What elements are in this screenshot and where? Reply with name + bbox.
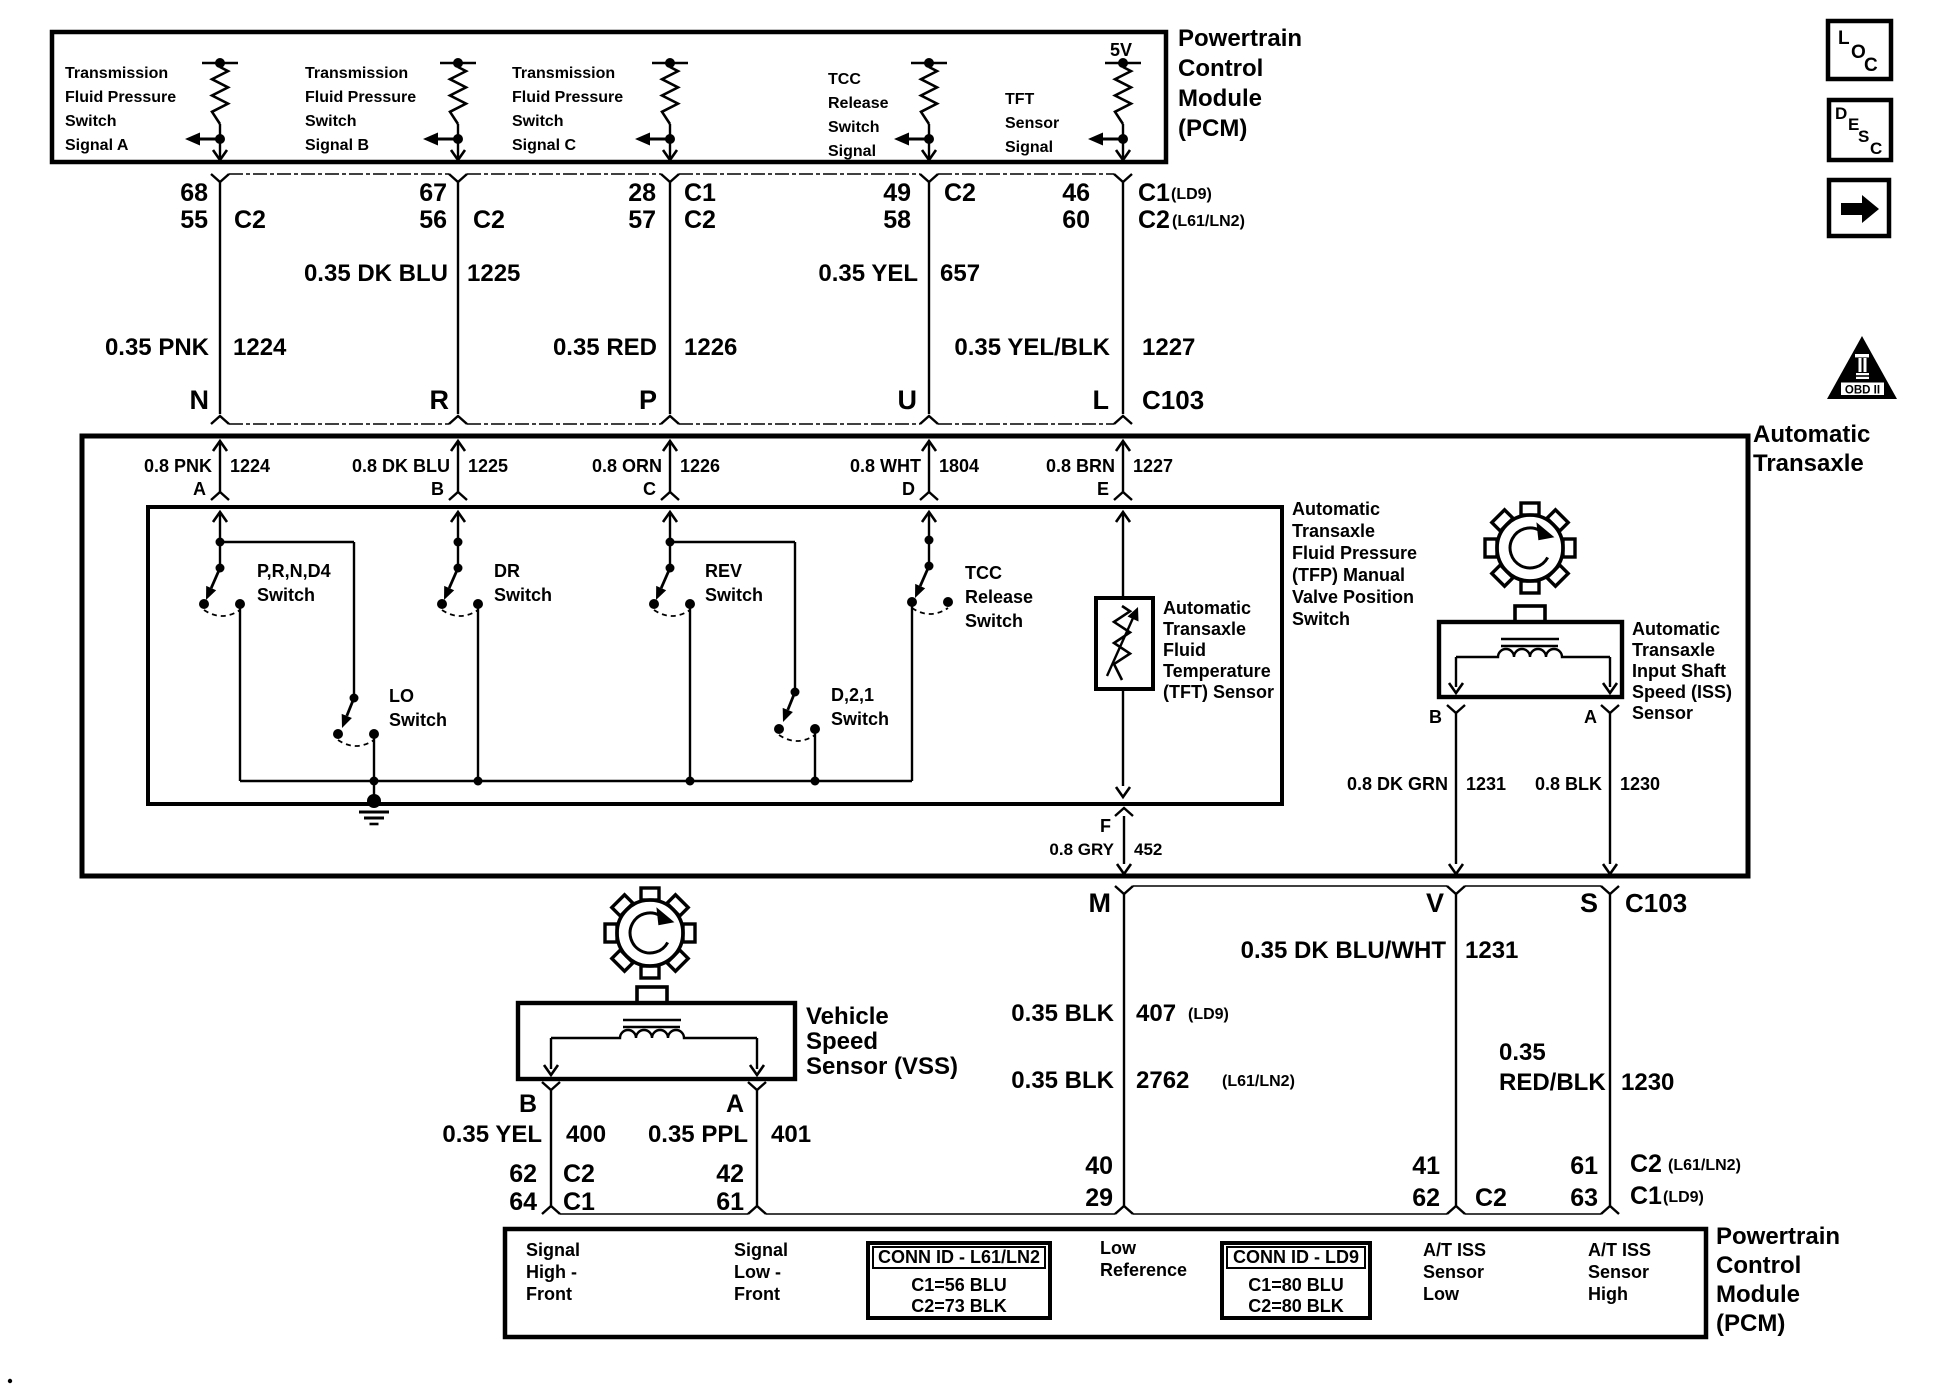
wire into transaxle, pin D: 0.8 WHT 1804 <box>850 441 979 500</box>
svg-text:0.35 DK BLU/WHT: 0.35 DK BLU/WHT <box>1241 937 1447 964</box>
svg-text:D: D <box>902 479 915 499</box>
label: Automatic Transaxle Fluid Pressure (TFP) Manual Valve Position Switch <box>1292 499 1417 629</box>
svg-text:61: 61 <box>1570 1152 1598 1180</box>
svg-text:Fluid Pressure: Fluid Pressure <box>512 89 623 106</box>
svg-text:Signal: Signal <box>1005 139 1053 156</box>
svg-text:Release: Release <box>828 95 889 112</box>
label: Automatic Transaxle Fluid Temperature (TFT) Sensor <box>1163 598 1274 702</box>
P,R,N,D4 switch <box>199 512 245 781</box>
svg-text:A/T ISS: A/T ISS <box>1588 1240 1651 1260</box>
wire label 0.35 RED/BLK 1230 <box>1499 1039 1674 1096</box>
svg-text:Switch: Switch <box>831 709 889 729</box>
svg-text:C1: C1 <box>1138 179 1170 207</box>
label: Vehicle Speed Sensor (VSS) <box>806 1003 958 1080</box>
svg-text:Temperature: Temperature <box>1163 661 1271 681</box>
ISS sensor gear icon <box>1485 503 1575 593</box>
svg-text:Reference: Reference <box>1100 1260 1187 1280</box>
label: TCC Release Switch <box>965 563 1033 631</box>
svg-text:Switch: Switch <box>389 710 447 730</box>
label: D,2,1 Switch <box>831 685 889 729</box>
svg-text:Fluid Pressure: Fluid Pressure <box>1292 543 1417 563</box>
PCM pin numbers 61 / 63 with C2 (L61/LN2) C1 (LD9) <box>1570 1150 1741 1212</box>
svg-text:0.35 DK BLU: 0.35 DK BLU <box>304 260 448 287</box>
svg-text:58: 58 <box>883 206 911 234</box>
DESC icon box <box>1829 100 1891 160</box>
connector pin F <box>1100 808 1133 836</box>
svg-text:Transmission: Transmission <box>512 65 615 82</box>
svg-text:N: N <box>190 385 210 415</box>
svg-text:Switch: Switch <box>65 113 117 130</box>
wire label 0.35 BLK 2762 (L61/LN2) <box>1011 1067 1295 1094</box>
svg-text:C103: C103 <box>1142 385 1204 415</box>
svg-text:0.8 DK GRN: 0.8 DK GRN <box>1347 774 1448 794</box>
wire label 0.8 GRY 452 <box>1049 816 1162 874</box>
label: Transmission Fluid Pressure Switch Signal A <box>65 65 176 154</box>
svg-text:Low: Low <box>1423 1284 1460 1304</box>
wire 0.8 BLK 1230 <box>1535 713 1660 874</box>
wire V (0.35 DK BLU/WHT 1231) <box>1447 886 1465 1214</box>
svg-text:OBD II: OBD II <box>1845 385 1880 397</box>
arrow entering TFP box col A <box>213 512 227 522</box>
wire label 0.35 BLK 407 (LD9) <box>1011 1000 1229 1027</box>
svg-text:42: 42 <box>716 1160 744 1188</box>
resistor pull-up network, PCM column 2 <box>423 58 476 160</box>
svg-text:57: 57 <box>628 206 656 234</box>
VSS gear icon <box>605 888 695 978</box>
svg-text:C1: C1 <box>1630 1182 1662 1210</box>
svg-text:(LD9): (LD9) <box>1188 1006 1229 1023</box>
svg-text:Front: Front <box>526 1284 572 1304</box>
svg-text:Switch: Switch <box>705 585 763 605</box>
svg-text:Sensor: Sensor <box>1423 1262 1484 1282</box>
svg-text:High: High <box>1588 1284 1628 1304</box>
svg-text:1225: 1225 <box>467 260 520 287</box>
svg-text:Powertrain: Powertrain <box>1716 1223 1840 1250</box>
arrow entering TFP box col C <box>663 512 677 522</box>
svg-text:C2: C2 <box>1630 1150 1662 1178</box>
resistor pull-up network, PCM column 1 <box>185 58 238 160</box>
svg-text:55: 55 <box>180 206 208 234</box>
resistor pull-up network, PCM column 3 <box>635 58 688 160</box>
svg-text:0.35 YEL/BLK: 0.35 YEL/BLK <box>954 334 1110 361</box>
svg-text:C2: C2 <box>563 1160 595 1188</box>
wire into transaxle, pin A: 0.8 PNK 1224 <box>144 441 270 500</box>
svg-text:0.8 DK BLU: 0.8 DK BLU <box>352 456 450 476</box>
svg-text:Sensor: Sensor <box>1005 115 1059 132</box>
svg-text:Switch: Switch <box>965 611 1023 631</box>
svg-text:P,R,N,D4: P,R,N,D4 <box>257 561 331 581</box>
svg-text:Signal: Signal <box>828 143 876 160</box>
svg-text:657: 657 <box>940 260 980 287</box>
svg-text:0.35 YEL: 0.35 YEL <box>818 260 918 287</box>
svg-text:Input Shaft: Input Shaft <box>1632 661 1726 681</box>
wire branch from C to D,2,1 switch <box>670 542 795 692</box>
svg-text:0.8 ORN: 0.8 ORN <box>592 456 662 476</box>
PCM pin numbers 40 / 29 <box>1085 1152 1113 1212</box>
wire label 0.35 RED 1226 <box>553 334 737 361</box>
svg-text:Transmission: Transmission <box>305 65 408 82</box>
wire into transaxle, pin B: 0.8 DK BLU 1225 <box>352 441 508 500</box>
svg-text:C1=80 BLU: C1=80 BLU <box>1248 1275 1344 1295</box>
LOC icon box <box>1828 21 1891 79</box>
svg-text:60: 60 <box>1062 206 1090 234</box>
svg-text:C2=80 BLK: C2=80 BLK <box>1248 1296 1344 1316</box>
wire L: PCM pin to C103 pin L <box>1114 174 1132 424</box>
svg-text:1227: 1227 <box>1142 334 1195 361</box>
svg-text:(L61/LN2): (L61/LN2) <box>1668 1157 1741 1174</box>
svg-text:Low: Low <box>1100 1238 1137 1258</box>
svg-text:CONN ID - L61/LN2: CONN ID - L61/LN2 <box>878 1247 1040 1267</box>
wire 0.35 YEL 400 <box>442 1090 606 1214</box>
svg-text:D: D <box>1835 104 1847 123</box>
svg-text:Switch: Switch <box>512 113 564 130</box>
wire into transaxle, pin C: 0.8 ORN 1226 <box>592 441 720 500</box>
svg-text:RED/BLK: RED/BLK <box>1499 1069 1606 1096</box>
svg-text:C2: C2 <box>684 206 716 234</box>
svg-text:TCC: TCC <box>965 563 1002 583</box>
svg-text:407: 407 <box>1136 1000 1176 1027</box>
svg-text:(LD9): (LD9) <box>1663 1189 1704 1206</box>
LO switch <box>333 694 379 782</box>
pin numbers row 2: 55 C2 / 56 C2 / 57 C2 / 58 / 60 C2 (L61/LN2) <box>180 206 1245 234</box>
wire label 0.35 YEL/BLK 1227 <box>954 334 1195 361</box>
svg-text:67: 67 <box>419 179 447 207</box>
A/T Input Shaft Speed (ISS) Sensor box <box>1439 606 1622 697</box>
svg-text:C2: C2 <box>944 179 976 207</box>
svg-text:Automatic: Automatic <box>1753 421 1870 448</box>
svg-text:Automatic: Automatic <box>1292 499 1380 519</box>
svg-text:Switch: Switch <box>1292 609 1350 629</box>
wire label 0.35 YEL 657 <box>818 260 980 287</box>
svg-text:C: C <box>1870 139 1882 158</box>
svg-text:Switch: Switch <box>305 113 357 130</box>
svg-text:Powertrain: Powertrain <box>1178 25 1302 52</box>
svg-text:1230: 1230 <box>1620 774 1660 794</box>
svg-text:V: V <box>1426 888 1444 918</box>
wire M (0.8 GRY 452) to PCM <box>1115 886 1133 1214</box>
connector C103 letter row: N R P U L C103 <box>190 385 1205 415</box>
svg-text:Signal B: Signal B <box>305 137 369 154</box>
label: Transmission Fluid Pressure Switch Signal C <box>512 65 623 154</box>
svg-text:C2=73 BLK: C2=73 BLK <box>911 1296 1007 1316</box>
svg-text:Sensor (VSS): Sensor (VSS) <box>806 1053 958 1080</box>
wire N: PCM pin to C103 pin N <box>211 174 229 424</box>
wire 0.35 PPL 401 <box>648 1090 811 1214</box>
svg-text:41: 41 <box>1412 1152 1440 1180</box>
wire P: PCM pin to C103 pin P <box>661 174 679 424</box>
svg-text:A: A <box>193 479 206 499</box>
svg-text:Switch: Switch <box>257 585 315 605</box>
svg-text:(PCM): (PCM) <box>1178 115 1247 142</box>
svg-text:P: P <box>639 385 657 415</box>
svg-text:62: 62 <box>1412 1184 1440 1212</box>
svg-text:S: S <box>1858 127 1869 146</box>
svg-text:1231: 1231 <box>1465 937 1518 964</box>
wire from TFT sensor to pin F <box>1116 689 1130 797</box>
svg-text:0.8 BLK: 0.8 BLK <box>1535 774 1602 794</box>
svg-text:40: 40 <box>1085 1152 1113 1180</box>
svg-text:(L61/LN2): (L61/LN2) <box>1172 213 1245 230</box>
wire E into TFT sensor <box>1122 512 1124 598</box>
svg-text:0.8 BRN: 0.8 BRN <box>1046 456 1115 476</box>
wire branch from A to LO switch <box>220 542 354 698</box>
Automatic Transaxle outer box <box>82 436 1748 876</box>
ISS pin B <box>1429 705 1465 727</box>
label: LO Switch <box>389 686 447 730</box>
svg-text:0.8 WHT: 0.8 WHT <box>850 456 921 476</box>
svg-text:(TFT) Sensor: (TFT) Sensor <box>1163 682 1274 702</box>
svg-text:C2: C2 <box>473 206 505 234</box>
svg-text:C1: C1 <box>563 1188 595 1216</box>
svg-text:Transaxle: Transaxle <box>1753 450 1864 477</box>
svg-text:0.35 RED: 0.35 RED <box>553 334 657 361</box>
label: TFT Sensor Signal <box>1005 91 1059 156</box>
Vehicle Speed Sensor (VSS) box <box>518 987 795 1079</box>
svg-text:Automatic: Automatic <box>1163 598 1251 618</box>
PCM lower connector bottom boundary line <box>560 1213 1601 1215</box>
arrow entering TFP box col D <box>922 512 936 522</box>
svg-text:L: L <box>1838 28 1850 49</box>
label: P,R,N,D4 Switch <box>257 561 331 605</box>
svg-text:Front: Front <box>734 1284 780 1304</box>
right-arrow icon box <box>1829 180 1889 236</box>
D,2,1 switch <box>774 688 820 782</box>
svg-text:Signal A: Signal A <box>65 137 129 154</box>
wire label 0.35 DK BLU/WHT 1231 <box>1241 937 1519 964</box>
svg-text:0.35 BLK: 0.35 BLK <box>1011 1000 1114 1027</box>
svg-text:452: 452 <box>1134 840 1162 859</box>
svg-text:2762: 2762 <box>1136 1067 1189 1094</box>
svg-text:D,2,1: D,2,1 <box>831 685 874 705</box>
label: DR Switch <box>494 561 552 605</box>
svg-text:Control: Control <box>1716 1252 1801 1279</box>
svg-text:Sensor: Sensor <box>1632 703 1693 723</box>
svg-text:C: C <box>643 479 656 499</box>
svg-text:E: E <box>1097 479 1109 499</box>
svg-text:B: B <box>1429 707 1442 727</box>
svg-text:0.35 BLK: 0.35 BLK <box>1011 1067 1114 1094</box>
svg-text:1225: 1225 <box>468 456 508 476</box>
wire label 0.35 PNK 1224 <box>105 334 287 361</box>
svg-text:M: M <box>1089 888 1112 918</box>
label: Automatic Transaxle Input Shaft Speed (ISS) Sensor <box>1632 619 1732 723</box>
label: A/T ISS Sensor High <box>1588 1240 1651 1304</box>
svg-text:DR: DR <box>494 561 520 581</box>
scan speck bottom left <box>8 1379 12 1383</box>
TFP manual valve position switch box <box>148 507 1282 804</box>
svg-text:62: 62 <box>509 1160 537 1188</box>
svg-text:CONN ID - LD9: CONN ID - LD9 <box>1233 1247 1359 1267</box>
PCM top box (Powertrain Control Module) <box>52 32 1166 162</box>
label: Powertrain Control Module (PCM) top right <box>1178 25 1302 142</box>
connector strip top boundary line <box>229 173 1114 175</box>
ground symbol <box>359 781 389 824</box>
PCM pin numbers 41 / 62 C2 <box>1412 1152 1507 1212</box>
svg-text:Fluid: Fluid <box>1163 640 1206 660</box>
svg-text:TFT: TFT <box>1005 91 1035 108</box>
svg-text:5V: 5V <box>1110 40 1132 60</box>
svg-text:29: 29 <box>1085 1184 1113 1212</box>
wire 0.8 DK GRN 1231 <box>1347 713 1506 874</box>
svg-text:C2: C2 <box>1138 206 1170 234</box>
svg-text:63: 63 <box>1570 1184 1598 1212</box>
svg-text:High -: High - <box>526 1262 577 1282</box>
svg-text:(TFP) Manual: (TFP) Manual <box>1292 565 1405 585</box>
svg-text:Module: Module <box>1178 85 1262 112</box>
svg-text:1224: 1224 <box>233 334 287 361</box>
wire S (0.35 RED/BLK 1230) <box>1601 886 1619 1214</box>
svg-text:C: C <box>1864 55 1878 76</box>
svg-text:56: 56 <box>419 206 447 234</box>
label: Transmission Fluid Pressure Switch Signal B <box>305 65 416 154</box>
svg-text:Sensor: Sensor <box>1588 1262 1649 1282</box>
svg-text:0.35 YEL: 0.35 YEL <box>442 1121 542 1148</box>
label: Signal High - Front <box>526 1240 580 1304</box>
svg-text:B: B <box>431 479 444 499</box>
svg-text:Automatic: Automatic <box>1632 619 1720 639</box>
VSS pin A <box>726 1082 766 1118</box>
resistor pull-up network, PCM column 5 <box>1088 58 1141 160</box>
VSS pin B <box>519 1082 560 1118</box>
svg-text:0.35 PNK: 0.35 PNK <box>105 334 210 361</box>
svg-text:Release: Release <box>965 587 1033 607</box>
svg-text:Signal C: Signal C <box>512 137 576 154</box>
label: Signal Low - Front <box>734 1240 788 1304</box>
svg-text:Transaxle: Transaxle <box>1292 521 1375 541</box>
svg-text:(PCM): (PCM) <box>1716 1310 1785 1337</box>
svg-text:Valve Position: Valve Position <box>1292 587 1414 607</box>
svg-text:0.8 PNK: 0.8 PNK <box>144 456 212 476</box>
svg-text:1224: 1224 <box>230 456 270 476</box>
svg-text:64: 64 <box>509 1188 537 1216</box>
svg-text:(LD9): (LD9) <box>1171 186 1212 203</box>
resistor pull-up network, PCM column 4 <box>894 58 947 160</box>
VSS pin numbers 42 / 61 <box>716 1160 744 1216</box>
svg-text:0.35 PPL: 0.35 PPL <box>648 1121 748 1148</box>
svg-text:(L61/LN2): (L61/LN2) <box>1222 1073 1295 1090</box>
TCC Release switch <box>907 512 953 781</box>
svg-text:L: L <box>1093 385 1110 415</box>
ISS pin A <box>1584 705 1619 727</box>
letters M V S C103 <box>1089 888 1688 918</box>
svg-text:Transaxle: Transaxle <box>1632 640 1715 660</box>
svg-text:Low -: Low - <box>734 1262 781 1282</box>
wire label 0.35 DK BLU 1225 <box>304 260 520 287</box>
svg-text:Signal: Signal <box>526 1240 580 1260</box>
svg-text:C2: C2 <box>1475 1184 1507 1212</box>
svg-text:401: 401 <box>771 1121 811 1148</box>
svg-text:Switch: Switch <box>494 585 552 605</box>
wire U: PCM pin to C103 pin U <box>920 174 938 424</box>
svg-text:Speed: Speed <box>806 1028 878 1055</box>
arrow entering TFP box col B <box>451 512 465 522</box>
svg-text:C1: C1 <box>684 179 716 207</box>
svg-text:Speed (ISS): Speed (ISS) <box>1632 682 1732 702</box>
svg-text:28: 28 <box>628 179 656 207</box>
arrow entering TFP box col E <box>1116 512 1130 522</box>
svg-text:46: 46 <box>1062 179 1090 207</box>
svg-text:68: 68 <box>180 179 208 207</box>
connector strip bottom boundary line <box>229 423 1114 425</box>
label: Automatic Transaxle <box>1753 421 1870 477</box>
label: A/T ISS Sensor Low <box>1423 1240 1486 1304</box>
svg-text:Module: Module <box>1716 1281 1800 1308</box>
svg-text:Transaxle: Transaxle <box>1163 619 1246 639</box>
svg-text:S: S <box>1580 888 1598 918</box>
svg-text:F: F <box>1100 816 1111 836</box>
svg-text:A: A <box>1584 707 1597 727</box>
svg-text:1227: 1227 <box>1133 456 1173 476</box>
svg-text:U: U <box>898 385 918 415</box>
svg-text:400: 400 <box>566 1121 606 1148</box>
svg-text:49: 49 <box>883 179 911 207</box>
svg-text:1226: 1226 <box>684 334 737 361</box>
svg-text:1804: 1804 <box>939 456 979 476</box>
label: 5V <box>1110 40 1132 60</box>
ground bus wire inside TFP box <box>240 777 912 786</box>
pin numbers row 1: 68 / 67 / 28 C1 / 49 C2 / 46 C1 (LD9) <box>180 179 1212 207</box>
svg-text:1230: 1230 <box>1621 1069 1674 1096</box>
label: Low Reference <box>1100 1238 1187 1280</box>
label: REV Switch <box>705 561 763 605</box>
svg-text:A/T ISS: A/T ISS <box>1423 1240 1486 1260</box>
svg-text:Transmission: Transmission <box>65 65 168 82</box>
svg-text:C103: C103 <box>1625 888 1687 918</box>
TFT sensor (thermistor) <box>1096 598 1153 689</box>
wire into transaxle, pin E: 0.8 BRN 1227 <box>1046 441 1173 500</box>
svg-text:C2: C2 <box>234 206 266 234</box>
REV switch <box>649 512 695 781</box>
svg-text:Signal: Signal <box>734 1240 788 1260</box>
DR switch <box>437 512 483 781</box>
svg-text:Control: Control <box>1178 55 1263 82</box>
CONN ID - L61/LN2 box <box>868 1243 1050 1318</box>
svg-text:1226: 1226 <box>680 456 720 476</box>
svg-text:61: 61 <box>716 1188 744 1216</box>
svg-text:Fluid Pressure: Fluid Pressure <box>305 89 416 106</box>
svg-text:TCC: TCC <box>828 71 861 88</box>
svg-text:LO: LO <box>389 686 414 706</box>
wire R: PCM pin to C103 pin R <box>449 174 467 424</box>
svg-text:Switch: Switch <box>828 119 880 136</box>
svg-text:R: R <box>430 385 450 415</box>
svg-text:0.35: 0.35 <box>1499 1039 1546 1066</box>
OBD II triangle icon <box>1827 336 1897 399</box>
C103 lower connector top boundary line <box>1133 885 1601 887</box>
label: Powertrain Control Module (PCM) bottom right <box>1716 1223 1840 1337</box>
svg-text:REV: REV <box>705 561 742 581</box>
svg-text:1231: 1231 <box>1466 774 1506 794</box>
svg-text:Vehicle: Vehicle <box>806 1003 889 1030</box>
VSS pin numbers 62 C2 / 64 C1 <box>509 1160 595 1216</box>
svg-text:A: A <box>726 1090 744 1118</box>
svg-text:0.8 GRY: 0.8 GRY <box>1049 840 1114 859</box>
svg-text:B: B <box>519 1090 537 1118</box>
CONN ID - LD9 box <box>1222 1243 1370 1318</box>
svg-text:C1=56 BLU: C1=56 BLU <box>911 1275 1007 1295</box>
PCM bottom box <box>505 1229 1706 1337</box>
label: TCC Release Switch Signal <box>828 71 889 160</box>
svg-text:Fluid Pressure: Fluid Pressure <box>65 89 176 106</box>
